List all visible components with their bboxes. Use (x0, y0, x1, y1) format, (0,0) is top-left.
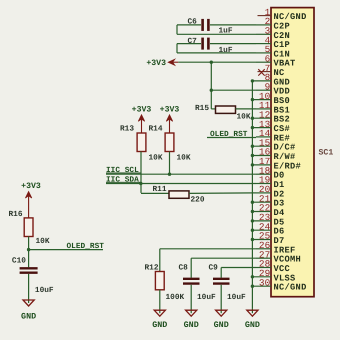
svg-text:NC/GND: NC/GND (274, 283, 307, 293)
svg-text:R12: R12 (145, 264, 159, 273)
wire IREF down to R12 (159, 249, 161, 272)
svg-text:10uF: 10uF (227, 293, 246, 302)
pin 6 (VBAT) (256, 53, 296, 68)
svg-text:GND: GND (152, 320, 167, 330)
svg-text:R13: R13 (120, 124, 134, 133)
capacitor C8 (183, 279, 200, 284)
svg-text:10K: 10K (36, 237, 50, 246)
svg-text:10K: 10K (237, 113, 251, 122)
svg-text:10K: 10K (177, 154, 191, 163)
pin 11 (BS1) (256, 100, 290, 115)
pin 23 (D5) (252, 212, 284, 227)
svg-text:GND: GND (184, 320, 199, 330)
junction GND bus pin 13 (251, 126, 254, 129)
junction VDD (210, 89, 213, 92)
pin 30 (NC/GND) (252, 277, 306, 292)
wire IREF horizontal (160, 248, 256, 250)
pin 5 (C1N) (256, 44, 290, 59)
ground (C10) (21, 274, 36, 321)
svg-text:R16: R16 (9, 210, 23, 219)
svg-text:10K: 10K (149, 154, 163, 163)
capacitor C7 (203, 38, 209, 50)
wire OLED_RST net (207, 137, 256, 139)
pin 26 (IREF) (256, 240, 296, 255)
pin 16 (R/W#) (252, 147, 295, 162)
ground (C9) (214, 285, 229, 330)
junction GND bus pin 30 (251, 285, 254, 288)
svg-text:100K: 100K (166, 293, 185, 302)
pin 21 (D3) (252, 193, 284, 208)
junction GND bus pin 15 (251, 145, 254, 148)
svg-text:+3V3: +3V3 (146, 59, 166, 68)
svg-text:R14: R14 (149, 124, 163, 133)
junction R13/SDA (139, 182, 142, 185)
pin 9 (VDD) (256, 81, 290, 96)
power flag +3V3 (R13) (132, 106, 152, 134)
junction GND bus pin 22 (251, 210, 254, 213)
junction GND bus pin 21 (251, 201, 254, 204)
wire R14 to SCL (169, 152, 171, 175)
svg-text:220: 220 (191, 196, 205, 205)
junction GND bus pin 10 (251, 98, 254, 101)
svg-text:C7: C7 (188, 37, 198, 46)
wire pin3 C2N (177, 33, 256, 35)
svg-text:SC1: SC1 (319, 149, 334, 158)
pin 3 (C2N) (256, 26, 290, 41)
svg-text:1uF: 1uF (219, 26, 233, 35)
pin 29 (VLSS) (252, 268, 295, 283)
junction VBAT/R15 rail (210, 61, 213, 64)
wire R13 to SDA and R11 (140, 152, 142, 193)
pin 8 (GND) (252, 72, 290, 87)
wire pin5 C1N (177, 52, 256, 54)
wire rail VBAT to R15 (210, 62, 212, 109)
wire R11 to pin20 (189, 192, 256, 195)
wire IIC_SDA net (106, 183, 256, 185)
svg-text:C9: C9 (209, 264, 219, 273)
wire C6 loop vertical (176, 25, 178, 34)
wire C7 to pin4 stub (210, 43, 256, 45)
svg-text:GND: GND (245, 320, 260, 330)
svg-text:1uF: 1uF (219, 46, 233, 55)
wire VCC horizontal (221, 267, 256, 269)
ground (GND bus) (245, 309, 260, 331)
op-amp / driver IC SC1 body (271, 8, 314, 297)
svg-text:GND: GND (21, 311, 36, 321)
resistor R16 (24, 218, 33, 237)
svg-text:+3V3: +3V3 (160, 106, 180, 115)
svg-text:OLED_RST: OLED_RST (67, 242, 105, 251)
pin 17 (E/RD#) (252, 156, 301, 171)
pin 15 (D/C#) (252, 137, 295, 152)
wire VDD pin9 (211, 89, 256, 91)
ground (C8) (184, 285, 199, 330)
junction GND bus pin 8 (251, 79, 254, 82)
svg-text:30: 30 (259, 277, 271, 288)
pin 13 (CS#) (252, 119, 290, 134)
wire pin4 C1P to C7 (177, 43, 201, 45)
junction GND bus pin 12 (251, 117, 254, 120)
pin 20 (D2) (256, 184, 285, 199)
svg-text:R11: R11 (153, 185, 167, 194)
capacitor C9 (213, 279, 230, 284)
pin 4 (C1P) (256, 35, 290, 50)
junction R14/SCL (168, 173, 171, 176)
svg-text:IIC_SDA: IIC_SDA (106, 175, 139, 184)
pin 2 (C2P) (256, 16, 290, 31)
resistor R13 (137, 133, 146, 152)
svg-text:+3V3: +3V3 (132, 106, 152, 115)
junction GND bus pin 24 (251, 229, 254, 232)
svg-text:GND: GND (214, 320, 229, 330)
power flag +3V3 (R16) (21, 182, 41, 218)
wire pin2 C2P to C6 (177, 24, 201, 26)
wire VCOMH down to C8 (190, 258, 192, 278)
svg-text:+3V3: +3V3 (21, 182, 41, 191)
pin 19 (D1) (256, 175, 285, 190)
wire OLED_RST stub (left) (29, 249, 103, 251)
wire VBAT net (178, 61, 256, 63)
pin 25 (D7) (252, 231, 284, 246)
capacitor C6 (203, 19, 209, 31)
junction GND bus pin 16 (251, 154, 254, 157)
pin 24 (D6) (252, 221, 284, 236)
svg-text:C10: C10 (12, 256, 26, 265)
wire C7 loop vertical (176, 44, 178, 53)
pin 14 (RE#) (256, 128, 290, 143)
power flag +3V3 on VBAT (146, 59, 178, 68)
svg-text:OLED_RST: OLED_RST (210, 130, 248, 139)
power flag +3V3 (R14) (160, 106, 180, 134)
resistor R14 (165, 133, 174, 152)
junction OLED_RST tap (27, 248, 30, 251)
svg-text:C8: C8 (179, 264, 189, 273)
resistor R12 (155, 272, 164, 290)
wire IIC_SCL net (106, 173, 256, 175)
svg-text:10uF: 10uF (35, 286, 54, 295)
resistor R15 (216, 106, 236, 113)
wire R15 left (211, 108, 215, 110)
svg-text:C6: C6 (188, 17, 198, 26)
junction GND bus pin 25 (251, 238, 254, 241)
wire GND bus vertical (251, 81, 253, 309)
net label IIC_SCL (106, 166, 141, 175)
pin 28 (VCC) (256, 259, 290, 274)
junction GND bus pin 17 (251, 163, 254, 166)
wire R16 to C10 (28, 237, 30, 268)
wire R15 right to pin11 (236, 108, 257, 110)
pin 12 (BS2) (252, 109, 290, 124)
pin 27 (VCOMH) (256, 249, 301, 264)
wire VCOMH horizontal (191, 257, 256, 259)
junction GND bus pin 23 (251, 219, 254, 222)
capacitor C10 (20, 268, 38, 272)
net label IIC_SDA (106, 175, 141, 184)
svg-text:IIC_SCL: IIC_SCL (106, 166, 139, 175)
wire C6 to pin2 stub (210, 24, 256, 26)
pin 10 (BS0) (252, 91, 290, 106)
pin 1 (NC/GND) (258, 7, 307, 22)
resistor R11 (169, 191, 189, 198)
pin 18 (D0) (256, 165, 285, 180)
junction GND bus pin 29 (251, 275, 254, 278)
pin 7 (NC) (258, 63, 285, 78)
wire D2 left (141, 192, 169, 194)
pin 22 (D4) (252, 203, 284, 218)
svg-text:R15: R15 (195, 104, 209, 113)
ground (R12) (152, 290, 167, 330)
svg-text:10uF: 10uF (197, 293, 216, 302)
wire VCC down to C9 (220, 268, 222, 278)
